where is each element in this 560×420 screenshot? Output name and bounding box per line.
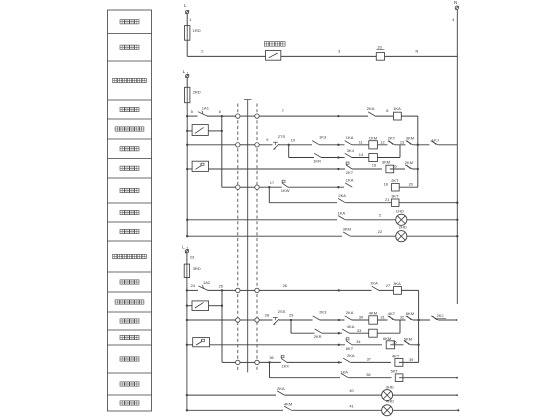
legend row label 备用投入 xyxy=(120,357,139,361)
indicator lamp 1HD xyxy=(396,209,407,226)
svg-text:3KA: 3KA xyxy=(393,281,401,286)
svg-text:21: 21 xyxy=(385,197,389,202)
terminal strip dashed line A xyxy=(237,104,239,373)
svg-text:2KA: 2KA xyxy=(367,106,375,111)
wire rung1 to right vertical xyxy=(401,115,418,117)
wire rung2' between terminals xyxy=(240,319,255,321)
junction dot rung2 x338 xyxy=(337,144,339,146)
wire 14 xyxy=(359,152,364,157)
svg-text:2KA: 2KA xyxy=(277,386,285,391)
legend row label 工作指示 xyxy=(120,401,139,405)
svg-text:26: 26 xyxy=(283,283,287,288)
junction dot x338 y157 xyxy=(337,156,339,158)
wire rung2' end xyxy=(438,319,457,321)
indicator lamp 3HD xyxy=(382,384,394,400)
svg-text:1S: 1S xyxy=(377,45,382,50)
terminal circle row A rung 3' xyxy=(236,360,240,364)
fuse 2RD xyxy=(185,78,201,103)
vertical wire x221.8 section1 xyxy=(221,116,223,187)
svg-text:4KM: 4KM xyxy=(369,311,377,316)
svg-text:2SS: 2SS xyxy=(278,309,286,314)
junction dot rung3' x338.8 xyxy=(338,361,340,363)
svg-text:N: N xyxy=(454,0,457,5)
wire rung2' right part xyxy=(339,319,430,321)
contact 2KM NC xyxy=(405,160,413,171)
svg-text:2KA: 2KA xyxy=(338,193,346,198)
wire rung1 to contact 2KA xyxy=(338,115,393,117)
legend row label 控制柜电源 xyxy=(113,78,147,82)
terminal circle row B rung 1' xyxy=(255,288,259,292)
flag contact 2KT test xyxy=(346,162,354,175)
legend row label 控制柜电源 xyxy=(113,254,147,258)
svg-text:1K3: 1K3 xyxy=(319,134,327,139)
wire 2 xyxy=(187,49,265,57)
svg-text:8: 8 xyxy=(386,108,388,113)
terminal L xyxy=(184,3,189,14)
remote control box section2 xyxy=(186,301,222,311)
svg-text:1A1: 1A1 xyxy=(202,106,210,111)
svg-text:3K4: 3K4 xyxy=(347,148,355,153)
wire rung2 to N bus xyxy=(438,144,458,146)
svg-text:18: 18 xyxy=(384,181,388,186)
wire sub-rung to coil 5KM xyxy=(339,332,400,334)
indicator lamp 4HD xyxy=(382,399,395,416)
legend row label 风机控制 xyxy=(120,335,139,339)
wire lamp 3HD end xyxy=(393,394,458,396)
node 10 xyxy=(288,137,296,146)
svg-text:3: 3 xyxy=(338,49,340,54)
wire 15 xyxy=(352,163,382,169)
svg-text:36: 36 xyxy=(269,355,273,360)
contact 2KJ NC xyxy=(431,313,446,321)
svg-text:2HD: 2HD xyxy=(399,225,407,230)
wire rung1' between terminals xyxy=(240,289,255,291)
wire sub-rung to coil 2KM xyxy=(338,157,400,159)
wire 39 to vertical xyxy=(399,357,419,362)
contact 6KM NC xyxy=(406,311,415,322)
svg-text:1: 1 xyxy=(189,17,191,22)
svg-text:9: 9 xyxy=(266,137,268,142)
wire rung 15 across xyxy=(209,168,346,170)
fuse 1RD xyxy=(185,26,201,41)
wire 33 xyxy=(357,328,361,333)
svg-text:1KW: 1KW xyxy=(281,188,290,193)
branch wire node10 down xyxy=(289,145,339,158)
time relay coil 2KT xyxy=(391,178,399,191)
contact 3KM lamp rung xyxy=(343,227,351,238)
terminal circle row B rung 3 xyxy=(255,185,259,189)
stop lamp rung section2 xyxy=(186,394,276,396)
svg-text:4HD: 4HD xyxy=(386,399,394,404)
wire rung2 right part xyxy=(338,144,429,146)
legend row label 消防外控 xyxy=(120,280,139,284)
svg-text:1KR: 1KR xyxy=(313,158,321,163)
legend row label 工作指示 xyxy=(120,229,139,233)
wire 21 xyxy=(346,197,392,203)
sensor contact 2TS xyxy=(273,134,286,149)
svg-text:37: 37 xyxy=(367,357,371,362)
wire 32 xyxy=(400,315,404,320)
wire lamp 2HD to N bus xyxy=(407,235,459,237)
panel boundary line xyxy=(244,100,252,373)
svg-text:4KA: 4KA xyxy=(347,324,355,329)
svg-text:1KA: 1KA xyxy=(338,211,346,216)
svg-text:2KT: 2KT xyxy=(346,170,354,175)
wire rung3 between terminals xyxy=(240,186,255,188)
terminal circle row B rung 2 xyxy=(255,143,259,147)
wire 2KM up to rung2 xyxy=(399,145,401,158)
svg-text:3KT: 3KT xyxy=(391,194,399,199)
time relay coil 4KT xyxy=(392,353,403,366)
contactor coil 4KM xyxy=(369,311,378,325)
vertical feeder x417.8 section1 xyxy=(417,116,419,187)
wire rung3' between terminals xyxy=(240,361,255,363)
junction dot x338.8 y333 xyxy=(338,332,340,334)
svg-text:29: 29 xyxy=(289,313,293,318)
wire 12 xyxy=(380,139,384,144)
switch 1S xyxy=(376,45,384,61)
svg-text:2KT: 2KT xyxy=(388,136,396,141)
svg-text:23: 23 xyxy=(190,254,194,259)
flag contact 1KW xyxy=(281,180,290,193)
wire 37 xyxy=(351,357,391,363)
legend row label 消防外控 xyxy=(120,107,139,111)
wire 16 xyxy=(390,163,418,169)
wire 9 xyxy=(259,137,338,145)
svg-text:5KT: 5KT xyxy=(391,369,399,374)
contact 1KR xyxy=(313,153,321,163)
svg-text:22: 22 xyxy=(378,229,382,234)
wire 1 xyxy=(187,14,191,26)
wire 19 lamp xyxy=(346,213,396,220)
svg-text:1RD: 1RD xyxy=(193,28,201,33)
svg-text:11: 11 xyxy=(359,139,363,144)
stop lamp rung wire xyxy=(186,219,337,221)
svg-text:3KM: 3KM xyxy=(382,160,390,165)
contact 1KA rung3 xyxy=(345,178,354,189)
contact 1K3 xyxy=(312,134,327,146)
terminal circle row A rung 3 xyxy=(236,185,240,189)
svg-text:3KM: 3KM xyxy=(343,227,351,232)
svg-text:25: 25 xyxy=(219,283,223,288)
svg-text:6KM: 6KM xyxy=(406,311,414,316)
wire rung1' to coil xyxy=(339,289,394,291)
svg-text:2KA: 2KA xyxy=(346,310,354,315)
wire 7 xyxy=(259,108,338,116)
left bus L2 section 2 xyxy=(186,278,188,411)
wire from fuse 1RD down to rung xyxy=(186,40,188,56)
contact 2K3 xyxy=(313,310,328,322)
svg-text:7: 7 xyxy=(282,108,284,113)
legend row label 消防外控 xyxy=(120,45,139,49)
wire 27 xyxy=(386,283,390,288)
switch box S1 fire external control xyxy=(266,51,281,61)
contact 2KR xyxy=(314,329,322,339)
junction dot rung1' x338.8 xyxy=(338,289,340,291)
run lamp rung section2 xyxy=(186,409,283,411)
svg-text:17: 17 xyxy=(270,180,274,185)
svg-text:27: 27 xyxy=(386,283,390,288)
wire 24 xyxy=(186,283,197,292)
svg-text:31: 31 xyxy=(380,315,384,320)
legend row label 消控中心控制 xyxy=(115,127,144,131)
svg-text:2KA: 2KA xyxy=(347,353,355,358)
contact 2KA rung3' xyxy=(343,353,355,364)
svg-text:1KJ: 1KJ xyxy=(432,138,439,143)
svg-text:1KA: 1KA xyxy=(370,281,378,286)
terminal circle row B rung 1 xyxy=(255,114,259,118)
contact 1KA rung2 xyxy=(345,135,354,146)
wire 20 to vertical xyxy=(399,182,418,188)
svg-text:1KX: 1KX xyxy=(281,363,289,368)
svg-text:2TS: 2TS xyxy=(278,134,286,139)
legend row label 消控中心控制 xyxy=(115,300,144,304)
remote control box section1 xyxy=(186,125,222,136)
sensor contact 2SS xyxy=(273,309,286,324)
node 25 xyxy=(219,283,224,291)
wire 17 xyxy=(259,180,344,188)
terminal circle row B rung 2' xyxy=(255,318,259,322)
wire rung 34 across xyxy=(210,344,345,346)
svg-text:15: 15 xyxy=(372,163,376,168)
svg-text:16: 16 xyxy=(392,163,396,168)
wire 36 xyxy=(259,355,342,363)
flag contact 1KX xyxy=(281,355,289,368)
wire 18 xyxy=(384,181,388,186)
wire 22 lamp xyxy=(351,229,396,236)
fuse 3RD xyxy=(184,264,201,277)
junction dot rung2' x338.8 xyxy=(338,319,340,321)
svg-text:2RD: 2RD xyxy=(193,89,201,94)
wire 3 xyxy=(281,49,377,57)
svg-text:3RD: 3RD xyxy=(193,266,201,271)
terminal circle row A rung 2 xyxy=(236,143,240,147)
svg-text:32: 32 xyxy=(400,315,404,320)
svg-text:33: 33 xyxy=(357,328,361,333)
svg-text:1: 1 xyxy=(187,71,189,75)
svg-text:3HD: 3HD xyxy=(386,384,394,389)
wire rung1' to right vertical xyxy=(401,289,418,291)
indicator lamp 2HD xyxy=(396,225,407,242)
contactor coil 3KM xyxy=(382,160,394,173)
wire 5KM up to rung2' xyxy=(399,320,401,333)
contact 2KA rung2' xyxy=(345,310,354,321)
legend row label 停机指示 xyxy=(120,210,139,214)
label 消防外控 for switch box S1 xyxy=(264,42,285,47)
contact 2KA xyxy=(367,106,376,118)
flag contact 6KT test xyxy=(346,338,354,351)
run lamp rung wire xyxy=(186,235,342,237)
contactor coil 1KM xyxy=(369,135,378,149)
wire rung3 left xyxy=(222,186,236,188)
svg-text:35: 35 xyxy=(392,339,396,344)
legend row label 备用投入 xyxy=(120,188,139,192)
terminal N xyxy=(452,0,459,22)
contact 1KJ NC xyxy=(431,138,439,147)
contactor coil 2KM xyxy=(369,154,378,162)
wire 38 xyxy=(349,372,392,378)
wire rung 21 to N bus xyxy=(399,202,458,204)
contact 2KA rung 21 xyxy=(338,193,346,204)
svg-text:1KA: 1KA xyxy=(346,135,354,140)
contact 4KT rung2' xyxy=(388,311,396,322)
terminal circle row B rung 3' xyxy=(255,360,259,364)
wire rung1 between terminals xyxy=(240,115,255,117)
wire 5 xyxy=(186,109,196,117)
legend row label 手动控制 xyxy=(120,319,139,323)
svg-text:2KJ: 2KJ xyxy=(437,313,444,318)
contact 1KA rung 38 xyxy=(340,370,348,380)
svg-text:4KT: 4KT xyxy=(388,311,396,316)
svg-text:2K3: 2K3 xyxy=(319,310,327,315)
contact 2KT rung2 xyxy=(388,136,396,147)
vertical feeder x420 section2 xyxy=(417,290,419,362)
wire rung2 from bus xyxy=(186,144,236,146)
svg-text:2KT: 2KT xyxy=(391,178,399,183)
time relay coil 3KT xyxy=(391,194,399,207)
svg-text:L: L xyxy=(184,3,187,8)
manual switch 1A1 xyxy=(197,106,236,118)
node 6 xyxy=(219,109,223,117)
wire lamp 4HD end xyxy=(393,409,460,411)
wire rung2 between terminals xyxy=(240,144,255,146)
wire 8 xyxy=(386,108,388,113)
wire lamp 1HD to N bus xyxy=(407,219,459,221)
svg-text:2KR: 2KR xyxy=(314,334,322,339)
svg-text:28: 28 xyxy=(265,312,269,317)
svg-text:2KM: 2KM xyxy=(405,160,413,165)
junction dot rung1 x338 xyxy=(337,115,339,117)
node 29 xyxy=(289,313,293,322)
fire center control box section2 xyxy=(186,338,210,347)
svg-text:5: 5 xyxy=(191,109,193,114)
relay coil 1KA xyxy=(393,106,401,120)
wire rung3' left xyxy=(222,361,236,363)
time relay coil 5KT xyxy=(391,369,403,382)
contact 3KM NC xyxy=(406,136,415,147)
svg-text:38: 38 xyxy=(366,372,370,377)
legend row label 手动控制 xyxy=(120,147,139,151)
svg-text:5KM: 5KM xyxy=(404,337,412,342)
wire 35 xyxy=(390,339,418,344)
contact 1KA lamp rung xyxy=(338,211,346,222)
wire 13 xyxy=(400,139,404,144)
contact 2KA lamp rung section2 xyxy=(277,386,285,397)
wire 28 xyxy=(259,312,339,320)
svg-text:4KM: 4KM xyxy=(284,401,292,406)
terminal L2 xyxy=(182,244,189,253)
svg-text:6KT: 6KT xyxy=(346,346,354,351)
wire 34 xyxy=(352,339,382,345)
svg-text:2: 2 xyxy=(187,247,189,251)
branch wire dot17 down to rung 21 xyxy=(269,187,337,203)
wire rung 38 end xyxy=(399,377,458,379)
left bus L1 section 1 xyxy=(186,103,188,237)
svg-text:1HD: 1HD xyxy=(396,209,404,214)
relay coil 3KA xyxy=(393,281,401,295)
branch wire dot36 down to rung 38 xyxy=(270,362,341,377)
svg-text:13: 13 xyxy=(400,139,404,144)
wire 23 xyxy=(187,253,194,264)
wire 40 xyxy=(285,388,382,395)
branch wire node29 down xyxy=(291,320,339,333)
fire center control box section1 xyxy=(186,161,208,171)
svg-text:4KT: 4KT xyxy=(392,353,400,358)
contact 5KM NC xyxy=(404,337,413,347)
svg-text:41: 41 xyxy=(349,403,353,408)
wire 11 xyxy=(359,139,363,144)
contactor coil 5KM xyxy=(369,329,378,337)
contact 4K4 xyxy=(342,324,355,335)
svg-text:6: 6 xyxy=(219,109,221,114)
contact 4KM lamp rung section2 xyxy=(284,401,292,412)
wire N xyxy=(385,49,458,57)
legend row label 控制电源 xyxy=(120,20,139,24)
wire 31 xyxy=(380,315,384,320)
terminal circle row A rung 2' xyxy=(236,318,240,322)
wire 41 xyxy=(292,403,382,410)
svg-text:1KA: 1KA xyxy=(340,370,348,375)
svg-text:3KM: 3KM xyxy=(406,136,414,141)
manual switch 1A2 xyxy=(197,280,236,292)
N bus wire xyxy=(456,9,458,304)
svg-text:1KA: 1KA xyxy=(393,106,401,111)
contact 1KA rung1' xyxy=(370,281,379,292)
contactor coil 6KM xyxy=(383,336,395,349)
svg-text:39: 39 xyxy=(409,357,413,362)
svg-text:1A2: 1A2 xyxy=(203,280,211,285)
terminal circle row A rung 1' xyxy=(236,288,240,292)
svg-text:1KM: 1KM xyxy=(369,135,377,140)
junction dot rung3 x338 xyxy=(337,186,339,188)
terminal circle row A rung 1 xyxy=(236,114,240,118)
terminal strip dashed line B xyxy=(256,104,258,373)
terminal L1 xyxy=(183,69,190,78)
svg-text:2: 2 xyxy=(379,213,381,218)
vertical wire x222 section2 xyxy=(221,290,223,362)
legend row label 停机指示 xyxy=(120,382,139,386)
svg-text:6KM: 6KM xyxy=(383,336,391,341)
svg-text:12: 12 xyxy=(380,139,384,144)
contact 3K4 xyxy=(345,148,355,159)
svg-text:1KA: 1KA xyxy=(346,178,354,183)
wire 26 xyxy=(259,283,339,291)
wire 30 xyxy=(359,315,364,320)
wire rung2' from bus xyxy=(186,319,236,321)
svg-text:N: N xyxy=(416,49,419,54)
legend row label 风机控制 xyxy=(120,166,139,170)
legend table frame xyxy=(108,10,152,411)
svg-text:2: 2 xyxy=(201,49,203,54)
